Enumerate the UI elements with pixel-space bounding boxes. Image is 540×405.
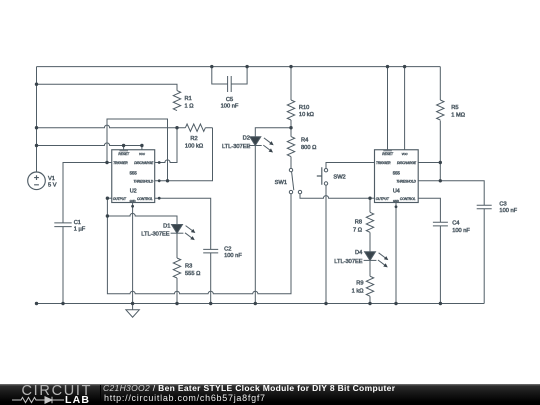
wire: SW2 bottom to ground rail [325, 185, 327, 303]
svg-text:555: 555 [393, 171, 401, 176]
wire: D2 top to R10/R4 node [255, 128, 291, 137]
svg-text:C1: C1 [74, 220, 81, 226]
wire: R8 to D4 anode [369, 232, 371, 251]
wire: D4 cathode to R9 [369, 259, 371, 276]
wire: U2 THRESHOLD to R2 right lead [155, 128, 213, 181]
svg-text:VCC: VCC [402, 152, 409, 156]
svg-text:R4: R4 [301, 138, 308, 144]
svg-text:R9: R9 [356, 281, 363, 287]
wire: R9 bottom lead to ground rail [369, 296, 371, 303]
wire: VCC rail to R1 top [37, 84, 178, 90]
node: R3 at ground rail [175, 302, 178, 305]
ground [126, 304, 139, 318]
svg-text:SW2: SW2 [333, 175, 345, 181]
node: U4 OUTPUT/R8 junction [368, 197, 371, 200]
svg-text:U2: U2 [130, 189, 137, 195]
wire: U2 OUTPUT stub [107, 197, 111, 199]
wire: U4 RESET stub to top rail [387, 67, 389, 151]
svg-text:100 nF: 100 nF [452, 228, 470, 234]
svg-text:555: 555 [130, 171, 138, 176]
switch SW2 [317, 167, 346, 185]
resistor R2 [177, 124, 213, 149]
svg-text:100 nF: 100 nF [499, 208, 517, 214]
svg-text:RESET: RESET [382, 152, 394, 156]
LED D1 [141, 223, 196, 241]
node: C1 at ground rail [61, 302, 64, 305]
svg-text:R10: R10 [299, 105, 309, 111]
svg-text:LTL-307EE: LTL-307EE [334, 259, 363, 265]
wire: VCC rail to U2 RESET/VCC (hop at x=107) [37, 143, 142, 146]
svg-text:555 Ω: 555 Ω [185, 271, 200, 277]
wire: U2 DISCHARGE to R1 bottom node (hop at x=167.5) [155, 128, 177, 163]
op-amp-style 555 timer U2 [112, 150, 155, 203]
node: SW2 at ground rail [324, 302, 327, 305]
node: V1+ to rail3 junction [35, 126, 38, 129]
resistor R10 [287, 100, 314, 120]
pin: U4 GND pin dot [395, 205, 398, 208]
node: TRIGGER net junction [105, 161, 108, 164]
svg-text:OUTPUT: OUTPUT [113, 197, 127, 201]
wire: U2 OUTPUT to D1 anode (hop at 132.6) [107, 213, 177, 224]
node: R1/R2/DISCHARGE junction [175, 126, 178, 129]
LED D2 [222, 136, 275, 154]
svg-text:10 kΩ: 10 kΩ [299, 112, 314, 118]
voltage source V1 [28, 172, 57, 190]
wire: R4 bottom lead to SW1 [290, 157, 292, 169]
resistor R4 [287, 137, 316, 157]
wire: C1 bottom lead [62, 227, 64, 304]
svg-text:THRESHOLD: THRESHOLD [396, 179, 416, 183]
wire: U2 RESET stub [123, 146, 125, 150]
svg-text:THRESHOLD: THRESHOLD [134, 179, 154, 183]
svg-text:5 V: 5 V [48, 183, 57, 189]
wire: R5 top lead [439, 67, 441, 100]
node: U4 GND at ground rail [394, 302, 397, 305]
node: C4 at ground rail [439, 302, 442, 305]
svg-text:C5: C5 [226, 97, 233, 103]
node: R10/R4/D2 junction [289, 126, 292, 129]
wire: R4 top lead [290, 128, 292, 137]
node: U2 VCC at VCC rail [140, 144, 143, 147]
wire: C4 bottom lead [439, 226, 441, 304]
resistor R5 [437, 100, 465, 120]
node: U2 OUTPUT net junction [106, 197, 109, 200]
svg-text:800 Ω: 800 Ω [301, 145, 316, 151]
svg-text:D1: D1 [163, 223, 170, 229]
svg-text:R8: R8 [355, 219, 362, 225]
capacitor C1 [54, 220, 85, 233]
pin: U2 DISCHARGE pin dot [158, 161, 161, 164]
svg-text:GND: GND [393, 199, 399, 203]
svg-text:LTL-307EE: LTL-307EE [222, 144, 251, 150]
wire: C2 bottom lead [210, 253, 212, 304]
wire: D1 cathode to R3 [176, 233, 178, 258]
capacitor C4 [433, 220, 471, 233]
svg-text:OUTPUT: OUTPUT [376, 197, 390, 201]
capacitor C3 [477, 202, 518, 215]
node: U2 OUTPUT to D1 junction [106, 214, 109, 217]
svg-text:D2: D2 [243, 136, 250, 142]
svg-text:1 MΩ: 1 MΩ [451, 113, 465, 119]
node: R9 at ground rail [368, 302, 371, 305]
svg-text:C3: C3 [499, 202, 506, 208]
node: R5/U4 DISCHARGE junction [439, 161, 442, 164]
svg-text:DISCHARGE: DISCHARGE [134, 161, 154, 165]
wire: VCC rail to R1 bottom node (hop at x=107) [37, 125, 178, 128]
svg-text:100 nF: 100 nF [221, 104, 239, 110]
svg-text:100 kΩ: 100 kΩ [185, 143, 203, 149]
555 timer U4 [375, 150, 419, 203]
svg-text:D4: D4 [355, 250, 362, 256]
pin: U2 GND pin dot [131, 205, 134, 208]
svg-text:R3: R3 [185, 264, 192, 270]
wire: U4 CONTROL to C4 top [418, 198, 440, 222]
node: U2 GND at ground rail [131, 302, 134, 305]
svg-text:1 µF: 1 µF [74, 227, 86, 233]
resistor R9 [352, 276, 374, 296]
wire: trigger-threshold loop [107, 119, 168, 181]
resistor R1 [173, 91, 193, 111]
pin: U2 THRESHOLD pin dot [158, 179, 161, 182]
svg-text:R2: R2 [190, 136, 197, 142]
node: C5 left at VCC rail [210, 65, 213, 68]
resistor R8 [353, 212, 374, 233]
node: C2 at ground rail [209, 302, 212, 305]
svg-text:RESET: RESET [118, 152, 130, 156]
node: U4 VCC at VCC rail [403, 65, 406, 68]
node: THRESHOLD-TRIGGER tie junction [166, 179, 169, 182]
svg-text:CONTROL: CONTROL [400, 197, 416, 201]
wire: U4 GND down to ground rail [395, 203, 397, 304]
wire: R3 bottom lead to ground rail [176, 278, 178, 304]
node: V1- at ground rail [35, 302, 38, 305]
footer bar [0, 384, 540, 405]
title text [103, 383, 395, 393]
wire: U2 CONTROL to C2 top [155, 198, 211, 249]
wire: U4 OUTPUT stub [370, 197, 375, 199]
svg-text:100 nF: 100 nF [224, 253, 242, 259]
node: U4 RESET at VCC rail [386, 65, 389, 68]
wire: top VCC rail [37, 66, 441, 68]
svg-text:1 kΩ: 1 kΩ [352, 288, 364, 294]
wire: U4 DISCHARGE to R5 [418, 162, 440, 164]
node: R10 at VCC rail [289, 65, 292, 68]
CircuitLab logo [22, 383, 93, 399]
wire: SW1 right throw to U4 OUTPUT node (hop at 326) [300, 194, 370, 198]
wire: U4 VCC stub to top rail [404, 67, 406, 151]
wire: D2 cathode to ground rail [254, 145, 256, 303]
svg-text:U4: U4 [393, 189, 400, 195]
wire: R10 bottom lead [290, 120, 292, 128]
svg-text:GND: GND [130, 199, 136, 203]
pin: U2 CONTROL pin dot [158, 197, 161, 200]
wire: R5 bottom lead through DISCHARGE to THRESHOLD [439, 121, 441, 181]
wire: SW2 top to U4 TRIGGER [326, 163, 375, 169]
capacitor C2 [203, 246, 242, 259]
svg-text:V1: V1 [48, 176, 55, 182]
LED D4 [334, 250, 389, 269]
wire: R8 top lead [369, 198, 371, 212]
resistor R3 [173, 258, 200, 278]
wire: ground rail [37, 303, 485, 305]
wire: R10 top lead [290, 67, 292, 100]
node: V1+ to rail2 junction [35, 83, 38, 86]
svg-text:1 Ω: 1 Ω [185, 104, 194, 110]
svg-text:VCC: VCC [139, 152, 146, 156]
wire: U4 THRESHOLD to C3 top [418, 181, 484, 206]
capacitor C5 [212, 67, 247, 110]
wire: U2 VCC stub [141, 146, 143, 150]
wire: U2 OUTPUT down and across to SW1 (hops at 132.6,177,210.7,255.3) [107, 194, 291, 294]
svg-text:DISCHARGE: DISCHARGE [397, 161, 417, 165]
wire: U2 GND down to ground rail [132, 203, 134, 304]
svg-text:C4: C4 [452, 220, 459, 226]
wire: C3 bottom lead [483, 209, 485, 304]
wire: C1 top to U2 TRIGGER [63, 163, 112, 223]
svg-text:R5: R5 [451, 105, 458, 111]
wire: V1 top vertical [36, 67, 38, 172]
svg-text:R1: R1 [185, 96, 192, 102]
node: V1+ to rail4 junction [35, 144, 38, 147]
node: R5/U4 THRESHOLD junction [439, 179, 442, 182]
svg-text:CONTROL: CONTROL [137, 197, 153, 201]
svg-text:C2: C2 [224, 246, 231, 252]
node: D2 at ground rail [254, 302, 257, 305]
node: U2 RESET at VCC rail [122, 144, 125, 147]
switch SW1 [275, 168, 302, 193]
svg-text:LTL-307EE: LTL-307EE [141, 232, 170, 238]
svg-text:7 Ω: 7 Ω [353, 228, 362, 234]
node: C5 right at VCC rail [245, 65, 248, 68]
svg-text:TRIGGER: TRIGGER [113, 161, 128, 165]
svg-text:SW1: SW1 [275, 180, 287, 186]
svg-text:TRIGGER: TRIGGER [376, 161, 391, 165]
